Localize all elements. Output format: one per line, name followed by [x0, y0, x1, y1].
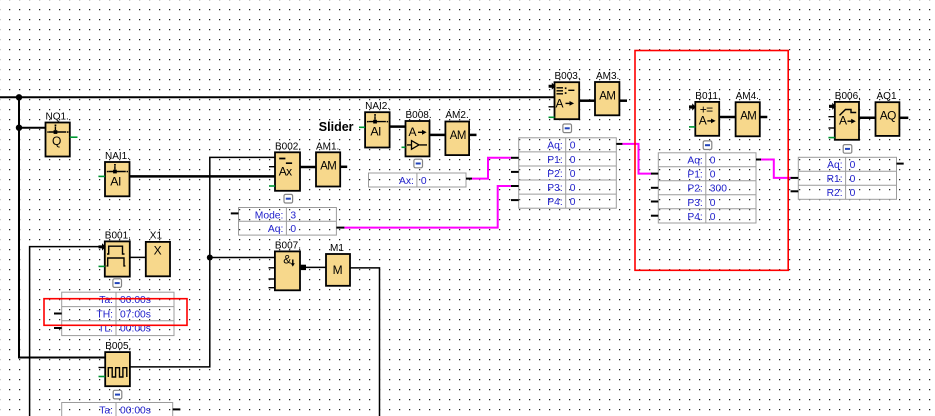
pin tick B011 P3	[651, 201, 658, 203]
wire: B001 output to X1	[130, 256, 146, 258]
svg-text:AI: AI	[110, 175, 121, 189]
svg-text:0: 0	[570, 141, 576, 152]
input stub B003 pin3	[549, 106, 555, 108]
block AQ1 (analog output)	[876, 102, 900, 136]
pin tick B006 Aq output	[897, 163, 904, 165]
parameter table of B008 (Ax)	[369, 173, 467, 187]
wire: vertical x29.6 to B001 input	[30, 247, 100, 416]
wire: branch from node x210 to B007 input 1	[210, 257, 275, 259]
collapse button B003	[563, 124, 572, 133]
green input stub B008	[402, 146, 406, 148]
svg-text:M1: M1	[330, 243, 344, 254]
pin tick B005 Ta output	[173, 408, 181, 410]
svg-text:B003.: B003.	[555, 71, 581, 82]
input arrow B006	[829, 103, 836, 110]
node: square junction at B007 output	[301, 265, 306, 270]
selection rectangle around B011 group	[635, 51, 788, 271]
svg-text:AM2.: AM2.	[445, 110, 468, 121]
node: junction on bus at x19	[16, 94, 22, 100]
svg-text:P4:: P4:	[687, 212, 702, 223]
svg-text:Q: Q	[52, 134, 61, 148]
svg-text:X: X	[154, 244, 162, 258]
collapse button B011	[703, 141, 712, 150]
block B002 (analog mux Ax)	[275, 152, 300, 191]
wire: magenta net B003 Aq to B011 P1	[622, 144, 651, 174]
green input stub B001	[99, 265, 105, 267]
block M1 (flag)	[326, 254, 350, 286]
green input stub B005	[99, 376, 106, 378]
svg-text:NAI2.: NAI2.	[365, 101, 390, 112]
svg-text:Mode:: Mode:	[255, 210, 284, 221]
wire: AM2 output stub	[469, 134, 476, 137]
wire: left vertical from bus down to B005 input	[19, 97, 105, 357]
svg-text:X1: X1	[150, 230, 163, 241]
svg-text:B011.: B011.	[695, 91, 720, 102]
pin tick B002 Mode	[231, 212, 239, 214]
svg-text:Ta:: Ta:	[99, 405, 113, 416]
parameter table of B011 (Aq/P1-P4)	[658, 153, 756, 223]
svg-text:A: A	[409, 125, 417, 139]
block AM1 (analog flag)	[316, 152, 340, 186]
pin tick B002 Aq output	[336, 227, 344, 229]
svg-text:Ax:: Ax:	[399, 176, 414, 187]
svg-text:00:00s: 00:00s	[120, 405, 151, 416]
svg-text:Slider: Slider	[319, 120, 354, 134]
input stub B007 pin2	[269, 267, 276, 269]
svg-text:AM: AM	[740, 109, 757, 123]
block B003 (analog mux)	[555, 82, 580, 119]
svg-text:Aq:: Aq:	[687, 156, 702, 167]
svg-text:P1:: P1:	[687, 170, 702, 181]
svg-text:B006.: B006.	[835, 91, 861, 102]
pin tick B001 TH	[54, 313, 62, 315]
svg-text:R1:: R1:	[827, 174, 843, 185]
svg-text:0: 0	[290, 224, 296, 235]
input stub B006 pin3	[828, 127, 834, 129]
svg-text:Ax: Ax	[279, 164, 292, 178]
svg-text:0: 0	[850, 188, 856, 199]
svg-text:Ta:: Ta:	[99, 295, 113, 306]
parameter table of B006 (Aq/R1/R2)	[798, 157, 896, 199]
pin tick B003 P3	[511, 185, 519, 187]
svg-text:R2:: R2:	[827, 188, 843, 199]
block AM4 (analog flag)	[736, 102, 760, 136]
block B008 (analog amplifier)	[406, 121, 430, 156]
input arrow B003	[549, 83, 556, 90]
svg-text:AQ1: AQ1	[877, 91, 897, 102]
input stub B005 pin2	[99, 367, 106, 369]
pin tick B011 Aq output	[756, 159, 761, 161]
wire: B011 output to AM4 (bold)	[719, 116, 735, 119]
svg-text:Aq:: Aq:	[547, 141, 562, 152]
green input stub B011	[689, 126, 695, 128]
block NAI2 (network analog input)	[365, 112, 390, 147]
node: junction at x210	[207, 255, 213, 261]
svg-text:A: A	[699, 113, 707, 127]
pin tick B006 R2	[791, 190, 799, 192]
wire: magenta net B002 Aq to B003 P3	[344, 186, 511, 228]
wire: AM1 output stub	[340, 166, 347, 169]
svg-text:AM: AM	[450, 128, 467, 142]
wire: top horizontal bus to B003 input	[0, 96, 555, 98]
block B005 (asynchronous pulse generator)	[105, 352, 130, 386]
pin tick B003 P4	[511, 199, 519, 201]
wire: B002 output to AM1 (bold)	[300, 166, 316, 169]
block AM3 (analog flag)	[595, 82, 619, 115]
pin tick B003 P2	[511, 171, 519, 173]
parameter table of B001 (Ta/TH/TL)	[62, 292, 174, 335]
selection rectangle around B001 TH row	[44, 299, 187, 326]
wire: NAI2 output to B008 (bold)	[390, 125, 406, 128]
svg-text:0: 0	[570, 169, 576, 180]
input stub B006 pin2	[828, 116, 834, 118]
wire: B008 output to AM2 (bold)	[430, 134, 446, 137]
pin tick B011 P4	[651, 215, 658, 217]
block B007 (NAND edge)	[275, 251, 300, 290]
parameter table of B003 (Aq/P1-P4)	[519, 138, 617, 208]
green input stub NAI1	[98, 175, 105, 177]
green output stub NQ1	[70, 136, 78, 138]
svg-text:P4:: P4:	[547, 197, 562, 208]
block X1 (open connector)	[146, 242, 170, 276]
svg-text:M: M	[333, 263, 343, 277]
collapse button B005	[113, 390, 122, 399]
wire: B003 output to AM3 (bold)	[579, 99, 595, 102]
svg-text:AQ: AQ	[880, 109, 896, 123]
svg-text:A: A	[556, 96, 564, 110]
pin tick B011 P1	[651, 173, 658, 175]
svg-text:00:00s: 00:00s	[120, 295, 151, 306]
wire: magenta net B011 Aq to B006 R1	[760, 160, 791, 178]
block NQ1 (network output)	[46, 123, 70, 157]
collapse button B001	[113, 279, 122, 288]
parameter table of B005 (Ta) bottom	[62, 403, 173, 416]
green input stub B002	[269, 185, 275, 187]
svg-text:0: 0	[570, 183, 576, 194]
wire: branch to NQ1 input	[19, 127, 46, 129]
svg-text:AM: AM	[320, 159, 337, 173]
pin tick B008 Ax output	[466, 178, 472, 180]
input stub B007 pin3	[269, 278, 276, 280]
wire: B007 output to M1	[300, 266, 326, 268]
pin tick B006 R1	[791, 177, 799, 179]
wire: M1 output going right and down off-screen	[350, 268, 380, 416]
wire: AM3 output stub	[619, 99, 627, 102]
svg-text:0: 0	[710, 170, 716, 181]
collapse button B008	[414, 159, 423, 168]
collapse button B006	[843, 145, 852, 154]
green input stub NAI2	[359, 126, 365, 128]
block B001 (pulse relay)	[105, 241, 130, 276]
svg-text:B005.: B005.	[105, 341, 131, 352]
svg-text:&: &	[283, 252, 291, 266]
wire: AM4 output stub	[760, 116, 767, 119]
block NAI1 (network analog input)	[105, 162, 130, 196]
svg-text:07:00s: 07:00s	[120, 309, 151, 320]
svg-text:P1:: P1:	[547, 155, 562, 166]
svg-text:AM: AM	[599, 88, 616, 102]
input stub B002 pin2	[269, 166, 275, 168]
wire: B005 output up to B002 input 1	[130, 157, 275, 367]
svg-text:AM4.: AM4.	[736, 91, 759, 102]
svg-text:A: A	[839, 114, 847, 128]
svg-text:NQ1.: NQ1.	[46, 111, 69, 122]
svg-text:300: 300	[710, 184, 727, 195]
svg-text:0: 0	[710, 156, 716, 167]
svg-text:0: 0	[850, 174, 856, 185]
svg-text:Aq:: Aq:	[827, 160, 842, 171]
svg-text:AM1.: AM1.	[316, 141, 339, 152]
pin tick B001 TL	[54, 327, 62, 329]
svg-text:AM3.: AM3.	[596, 71, 619, 82]
wire: AQ1 output stub	[899, 117, 908, 120]
svg-text:NAI1.: NAI1.	[105, 151, 130, 162]
input arrow B011	[689, 103, 696, 110]
pin tick B003 P1	[511, 157, 519, 159]
svg-text:P3:: P3:	[687, 198, 702, 209]
svg-text:TH:: TH:	[96, 309, 113, 320]
block B006 (analog ramp)	[835, 102, 859, 140]
svg-text:P2:: P2:	[687, 184, 702, 195]
wire: B006 output to AQ1 (bold)	[859, 117, 876, 120]
pin tick B003 Aq output	[616, 143, 622, 145]
collapse button B002	[284, 194, 293, 203]
wire: NAI1 output to B002 input 3 (bold analog)	[129, 175, 275, 178]
parameter table of B002 (Mode/Aq)	[239, 208, 337, 236]
svg-text:B007.: B007.	[275, 240, 301, 251]
svg-text:3: 3	[290, 210, 296, 221]
green input stub B006	[828, 137, 834, 139]
input arrow B001	[99, 243, 106, 250]
svg-text:AI: AI	[370, 124, 381, 138]
svg-text:0: 0	[710, 212, 716, 223]
input stub B007 pin4	[269, 287, 276, 289]
block AM2 (analog flag)	[445, 122, 469, 156]
block B011 (analog math)	[695, 102, 719, 136]
svg-text:0: 0	[570, 155, 576, 166]
pin tick B011 P2	[651, 187, 658, 189]
green input stub B003	[549, 116, 555, 118]
svg-text:0: 0	[850, 160, 856, 171]
svg-text:0: 0	[570, 197, 576, 208]
svg-text:Aq:: Aq:	[268, 224, 283, 235]
node: junction at NQ1 branch	[16, 125, 22, 131]
svg-text:B001.: B001.	[105, 230, 131, 241]
svg-text:B008.: B008.	[406, 110, 432, 121]
svg-text:0: 0	[421, 176, 427, 187]
svg-text:P3:: P3:	[547, 183, 562, 194]
svg-text:B002.: B002.	[275, 141, 301, 152]
svg-text:P2:: P2:	[547, 169, 562, 180]
svg-text:0: 0	[710, 198, 716, 209]
wire: magenta net Ax table to B003 P1	[472, 158, 512, 179]
